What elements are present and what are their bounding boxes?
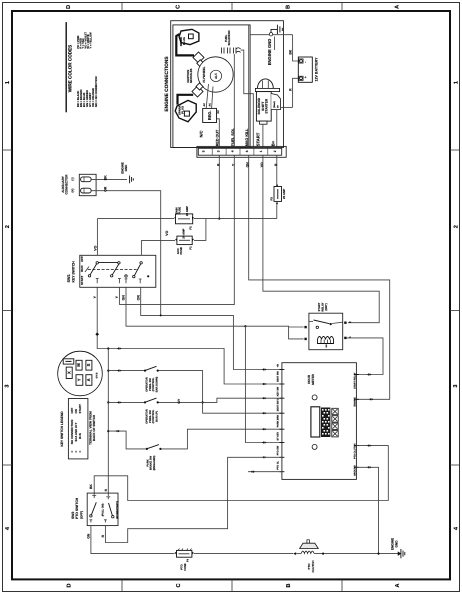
svg-text:OR: OR [136,295,140,301]
regulator REG [203,108,217,122]
flywheel [198,57,233,92]
connector pair seat row [117,347,122,349]
battery 12V [298,57,312,82]
svg-text:ENGINE: ENGINE [353,397,356,407]
svg-text:3: 3 [453,384,459,387]
svg-text:BK: BK [104,175,108,180]
svg-text:D: D [66,5,72,9]
fuse F4 PTO 20 AMP [175,548,194,570]
svg-text:12V BATTERY: 12V BATTERY [314,57,318,82]
svg-text:2: 2 [273,150,277,152]
start relay coil [318,337,334,344]
wire battery negative lead BK [293,35,299,61]
spark plug P2 [175,100,196,121]
operator presence switch 1 [144,366,159,392]
svg-text:N/C: N/C [199,130,204,137]
spark plug P1 [179,29,199,46]
wire MAG KILL drop and run to interlock [249,155,390,399]
svg-text:VO: VO [260,162,264,167]
svg-text:(SRY): (SRY) [325,303,328,310]
wire aux (+) OR [91,191,161,316]
hour meter connector pins column [332,408,338,437]
key switch ACC terminal drop [140,240,142,255]
svg-text:AC: AC [203,103,206,107]
wire key switch OR exit to interlock +B [141,287,282,369]
svg-text:1: 1 [259,150,263,152]
wire interlock PTO SW pin detour [105,457,282,542]
border zone ticks left [3,150,13,465]
connector pair on GROUND pin wire [367,466,372,468]
strip pin numbers 5 3 4 6 1 2 [202,150,277,152]
start relay pins right [344,322,346,324]
fuel solenoid FS coil [222,48,241,54]
wire PTO switch GN exit to clutch circuit [91,526,175,554]
svg-text:B: B [286,5,292,9]
starter mounting plate [255,88,279,91]
operator presence switch 1 wire [108,371,282,414]
svg-text:(PULL ON): (PULL ON) [102,504,105,517]
svg-text:FLYWHEEL: FLYWHEEL [202,66,206,82]
operator presence switch 2 [144,398,159,424]
connector pin B [76,360,82,370]
ignition module M2 pickup [196,83,203,90]
border zone letters top D C B A [66,5,401,9]
ignition module M1 pickup [197,60,204,67]
svg-text:PTO CL: PTO CL [276,460,279,469]
svg-text:3: 3 [5,384,11,387]
wire key switch B exit (trunk) [97,287,108,348]
svg-text:REG.: REG. [207,111,212,121]
svg-text:GND: GND [394,540,398,548]
wire DC regulator to strip (RED OUT) [217,119,220,148]
svg-text:CONNECTOR: CONNECTOR [65,174,69,195]
node trunk junction park brake [107,430,109,432]
wire fuse bus horizontal [97,218,174,220]
svg-text:+B: +B [276,364,279,367]
connector pin X [66,367,72,378]
hour meter post hole top [312,395,317,400]
connector pair op sw2 [117,401,122,403]
svg-text:20 AMP: 20 AMP [185,206,189,216]
wire GN bus down to interlock pin [245,326,282,442]
border zone ticks top [122,3,342,12]
connector pin S [86,360,92,370]
start relay box [309,313,343,350]
wire color codes legend rule line [65,22,67,112]
PTO switch internals [90,496,119,523]
svg-text:START: START [78,404,82,414]
node trunk junction op sw2 [107,401,109,403]
svg-text:Y: Y [77,378,82,381]
node GN bus junction at relay feed [244,325,246,327]
svg-text:2: 2 [453,225,459,228]
connector arrow on clutch bus [293,552,296,555]
svg-text:+: + [303,76,307,78]
border zone numbers right 1 2 3 4 [453,81,460,530]
svg-text:OFF: OFF [80,256,84,262]
svg-text:A: A [395,5,401,9]
svg-text:GN: GN [122,295,126,301]
svg-text:2: 2 [5,225,11,228]
svg-text:=: = [78,451,82,453]
alternator ALT [210,70,221,81]
wire color codes legend column 2 [77,32,93,49]
border zone letters bottom D C B A [67,583,402,587]
svg-text:GN: GN [87,533,91,539]
connector pair on trunk [95,332,99,336]
key switch legend box [68,399,88,459]
svg-text:ENGINE CONNECTIONS: ENGINE CONNECTIONS [164,56,170,112]
svg-text:F2: F2 [189,226,193,230]
svg-text:KEY SWITCH LEGEND: KEY SWITCH LEGEND [60,411,64,447]
svg-text:(MOMENTARY): (MOMENTARY) [116,501,119,519]
svg-text:DC: DC [217,110,220,114]
wire key switch GN exit to relay bus [126,287,245,326]
border zone ticks bottom [122,579,342,591]
svg-text:BAR UP): BAR UP) [155,411,158,422]
svg-text:VO: VO [165,230,169,235]
battery terminal negative [299,59,303,63]
svg-text:MODULES: MODULES [189,69,193,84]
svg-text:GN: GN [246,162,250,168]
interlock PTO CL pin stub [248,471,282,473]
svg-text:D: D [67,583,73,587]
svg-text:5: 5 [202,150,206,152]
engine ground terminal circle [269,33,272,36]
auxiliary connector [61,174,96,196]
svg-text:METER: METER [311,373,315,385]
svg-text:KEY SW: KEY SW [276,386,279,396]
connector pairs on interlock left pin wires [262,368,267,458]
svg-text:GND: GND [124,164,128,172]
node trunk junction op sw1 [107,370,109,372]
node aux OR junction [160,314,162,316]
wire aux (-) to engine gnd [91,178,127,180]
svg-text:BAR DOWN): BAR DOWN) [155,377,158,393]
node clutch terminal [322,553,324,555]
wire RED OUT drop [218,155,220,218]
svg-text:BACK OF SWITCH: BACK OF SWITCH [92,415,96,441]
wire ACC fuse output up to bus [194,219,206,241]
fuse F2 MAIN 20 AMP [174,206,194,230]
spark plug P1 HT cable [176,34,194,55]
svg-text:ALT.: ALT. [214,73,218,79]
svg-text:A: A [86,378,91,381]
svg-text:(ENGAGED): (ENGAGED) [153,455,156,470]
svg-text:SEAT SW 2: SEAT SW 2 [276,398,279,411]
starter bottom tab [260,121,267,124]
hour meter pixel matrix [321,408,330,438]
connector pair op sw1 [117,369,122,371]
svg-text:PTO SW: PTO SW [276,445,279,455]
wire GN bus to relay pins [245,326,303,339]
svg-text:START: START [80,275,84,285]
interlock right pin ticks [354,375,359,468]
starter B+ lug [271,94,280,110]
PTO clutch [300,540,319,573]
wire interlock GROUND pin to chassis ground [356,467,378,553]
node trunk junction seat row [107,347,109,349]
wire seat switch row to interlock SEAT pin [108,349,282,385]
starter solenoid body [256,92,271,122]
svg-text:C: C [176,583,182,587]
svg-text:C: C [176,5,182,9]
svg-text:WIRE COLOR CODES: WIRE COLOR CODES [68,45,73,92]
node op sw1 to op sw2 junction [202,401,204,403]
wire starter lug to B+ strip [276,110,278,148]
svg-text:20 AMP: 20 AMP [182,228,186,238]
connector pair on PTO CL stub [251,471,256,473]
svg-text:GY B: GY B [96,372,99,378]
svg-text:4: 4 [231,150,235,152]
svg-text:3: 3 [217,150,221,152]
svg-text:ST KEY: ST KEY [276,431,279,440]
engine ground wire top [250,34,293,36]
key switch contacts [85,262,149,284]
start relay pins left [304,326,306,328]
wire starter to START strip [262,124,264,147]
wire clutch bus [194,553,293,555]
svg-text:SEAT SW: SEAT SW [276,371,279,382]
interlock module box [282,363,357,480]
svg-text:FUSE: FUSE [184,563,187,570]
wire B+ drop to circuit breaker [276,155,278,184]
svg-text:RUN: RUN [80,266,84,272]
fuse F1 ACC 20 AMP [175,228,194,254]
key switch SW1 box [80,255,156,287]
wire mag kill from modules to strip [248,25,250,148]
wire battery positive lead R [293,78,299,107]
svg-text:B+S: B+S [78,433,82,439]
svg-text:START RELAY: START RELAY [353,372,356,389]
key switch connector circle (terminal view) [58,351,103,396]
circuit breaker F3 20 AMP [269,184,286,218]
wire fuel solenoid to strip [233,54,235,148]
svg-text:20 AMP: 20 AMP [282,189,286,199]
wire clutch to engine ground [314,553,398,555]
svg-text:PARK BRK: PARK BRK [276,414,279,427]
svg-text:PLUG: PLUG [182,37,186,45]
svg-text:M: M [76,363,81,367]
wire START drop and run to start relay [263,155,379,323]
node junction RED OUT / fuse bus [218,218,220,220]
svg-text:PLUG: PLUG [181,106,185,114]
svg-text:CLUTCH: CLUTCH [311,561,315,573]
svg-text:1: 1 [5,81,11,84]
trunk wire down left side [107,349,109,497]
svg-text:(OFF): (OFF) [79,511,83,519]
park brake switch [146,445,162,471]
engine ground symbol top [271,25,282,34]
interlock left pin labels [276,364,279,470]
svg-text:F1: F1 [189,246,193,250]
starter motor dome [258,79,274,89]
interlock left pin ticks [279,370,284,472]
svg-text:(-): (-) [70,177,74,180]
svg-text:N/C = NO CONNECTION: N/C = NO CONNECTION [95,76,98,107]
ignition module M2 [192,86,203,97]
svg-text:START: START [256,132,261,146]
wire stub right of gnd label [274,37,276,51]
svg-text:MAG KILL: MAG KILL [245,128,249,147]
svg-text:SW1: SW1 [67,274,71,282]
engine terminal strip [198,148,281,155]
connector pin Y [76,375,83,386]
svg-text:BK: BK [289,49,293,54]
connector pin slot horizontal [63,359,74,364]
engine ground symbol aux [130,176,134,184]
PTO switch SW2 box [87,493,118,525]
wire interlock PTO CLUTCH pin to PTO switch feed [94,446,388,501]
svg-text:A: A [395,583,401,587]
operator presence switch 2 wire [108,398,282,402]
engine ground symbol bottom right [398,549,405,558]
connector pair on ENGINE pin wire [369,398,374,400]
svg-text:GY: GY [177,398,181,404]
svg-text:F3: F3 [269,197,273,201]
connector pair on PTO CLUTCH pin wire [367,444,372,446]
svg-text:B: B [286,583,292,587]
connector pair on START RELAY pin wire [367,373,372,375]
park brake switch wire [108,429,282,449]
engine terminal strip outer [197,146,286,157]
svg-text:AC: AC [208,103,211,107]
svg-text:ENGINE GND: ENGINE GND [267,39,272,66]
svg-text:(+): (+) [70,189,74,193]
key switch riser VO to main fuse [96,219,98,256]
hour meter LCD window [311,407,320,437]
svg-text:GROUND: GROUND [353,465,356,476]
svg-text:B+: B+ [271,140,276,146]
svg-text:BK: BK [89,484,93,489]
battery terminal positive [299,76,303,80]
svg-text:RED OUT: RED OUT [215,129,219,146]
connector pin A [86,375,92,386]
hour meter post hole bottom [312,444,317,449]
start relay contact [309,320,343,328]
wire ACC fuse feed [141,239,175,241]
engine connections box [171,21,284,148]
spark plug P2 HT cable [178,95,194,105]
svg-text:Y = YELLOW: Y = YELLOW [90,32,93,49]
interlock right pin labels [353,372,356,476]
wire relay pin6 to interlock START RELAY pin [347,338,383,375]
svg-text:SOLENOID: SOLENOID [227,30,231,45]
svg-text:OR: OR [104,186,108,192]
svg-text:PTO CLUTCH: PTO CLUTCH [353,443,356,459]
ignition module M1 [193,52,204,63]
svg-text:1: 1 [454,81,460,84]
wire fuel solenoid return to strip [241,50,254,147]
svg-text:VO: VO [93,245,97,250]
key switch legend rows [70,404,82,453]
wire AC alternator to regulator [206,84,208,108]
svg-text:X: X [66,371,71,374]
node ground junction [377,553,379,555]
wire color codes legend column 1 [77,76,98,107]
svg-text:FUSE: FUSE [178,207,182,215]
svg-text:PTO: PTO [181,564,184,569]
border zone numbers left 1 2 3 4 [5,81,12,530]
svg-text:(Start): (Start) [273,101,276,108]
svg-text:FUSE: FUSE [179,247,183,255]
svg-text:KEY SWITCH: KEY SWITCH [72,261,76,283]
wire starter lug to battery feed [281,106,293,108]
wire FUEL SOL drop [119,155,234,304]
svg-text:-: - [303,62,307,63]
svg-text:S: S [86,363,91,366]
svg-text:STARTER: STARTER [265,98,269,114]
svg-text:6: 6 [245,150,249,152]
svg-text:FUEL SOL: FUEL SOL [231,127,235,146]
wire key switch fuel sol exit [118,287,120,304]
border zone ticks right [450,150,460,465]
connector pair park brake [116,430,121,432]
engine crankcase inner outline [173,25,250,148]
